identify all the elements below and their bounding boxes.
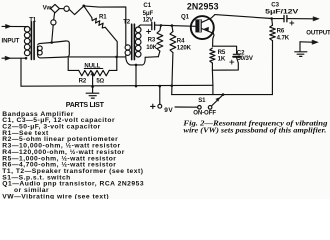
transistor Q1 xyxy=(181,2,219,47)
bottom rail B xyxy=(172,94,273,96)
svg-text:Q1: Q1 xyxy=(181,14,190,21)
potentiometer R2 with NULL label xyxy=(68,57,117,87)
svg-text:S1: S1 xyxy=(198,97,206,104)
svg-text:INPUT: INPUT xyxy=(2,37,20,44)
resistor R6 xyxy=(270,19,290,95)
svg-text:50/3V: 50/3V xyxy=(237,55,253,62)
svg-text:R3: R3 xyxy=(148,37,156,44)
node: VW line joins loop xyxy=(50,41,53,44)
svg-text:T2: T2 xyxy=(123,18,131,25)
svg-text:120K: 120K xyxy=(177,44,192,51)
svg-text:OUTPUT: OUTPUT xyxy=(306,30,330,37)
svg-text:5Ω: 5Ω xyxy=(96,77,104,84)
svg-text:ON-OFF: ON-OFF xyxy=(193,109,216,116)
rail A step down to rail B xyxy=(212,85,214,94)
battery terminal +9V xyxy=(151,86,174,114)
bottom rail A xyxy=(21,84,213,87)
ground (output) xyxy=(295,42,307,57)
resistor R3 xyxy=(146,25,163,56)
vibrating wire VW xyxy=(43,4,84,42)
wire: T2 secondary top to C1 to Q1 base xyxy=(138,25,152,27)
wire: R5/C2 drop to rail xyxy=(211,70,214,85)
svg-text:10K: 10K xyxy=(146,44,158,51)
parts list xyxy=(2,101,144,200)
svg-text:2N2953: 2N2953 xyxy=(187,2,219,12)
switch S1 xyxy=(175,95,223,117)
capacitor C2 xyxy=(212,46,253,70)
svg-text:VW—Vibrating wire (see text): VW—Vibrating wire (see text) xyxy=(2,193,109,199)
capacitor C3 xyxy=(265,2,299,25)
svg-text:R2: R2 xyxy=(79,77,87,84)
svg-text:5μF/12V: 5μF/12V xyxy=(265,9,299,16)
svg-text:wire (VW) sets passband of thi: wire (VW) sets passband of this amplifie… xyxy=(183,126,326,134)
node A (bridge top) xyxy=(82,5,85,8)
svg-text:R6: R6 xyxy=(277,27,285,34)
T1 secondary loop box xyxy=(38,41,70,58)
capacitor C1 xyxy=(143,2,155,33)
resistor R4 xyxy=(170,26,192,95)
wire: collector rail to C3 xyxy=(215,15,284,19)
wire: T1 left drop to bottom rail xyxy=(20,58,22,86)
transformer T2 xyxy=(123,18,141,59)
input terminal arrows xyxy=(2,24,27,60)
svg-text:9V: 9V xyxy=(164,107,173,114)
wire: node A to T2 primary top xyxy=(84,6,127,45)
svg-text:T1: T1 xyxy=(29,17,37,24)
T2 bottom boat xyxy=(126,56,159,87)
svg-text:PARTS LIST: PARTS LIST xyxy=(66,101,105,109)
ground (R2 wiper) xyxy=(86,87,99,99)
transformer T1 xyxy=(24,17,36,60)
wire: loop box to junction xyxy=(69,56,125,58)
resistor R5 xyxy=(210,48,226,70)
svg-text:C1: C1 xyxy=(143,2,151,9)
svg-text:4.7K: 4.7K xyxy=(277,35,290,42)
figure caption xyxy=(183,119,327,134)
svg-text:Vw: Vw xyxy=(43,5,52,12)
resistor R1 xyxy=(84,6,117,57)
svg-text:1K: 1K xyxy=(218,55,226,62)
node: R1/R2/null junction xyxy=(115,56,118,59)
node: wiper to rail xyxy=(91,85,94,88)
svg-text:R1: R1 xyxy=(99,14,107,21)
output terminal arrows xyxy=(287,17,319,45)
svg-text:R4: R4 xyxy=(177,37,185,44)
